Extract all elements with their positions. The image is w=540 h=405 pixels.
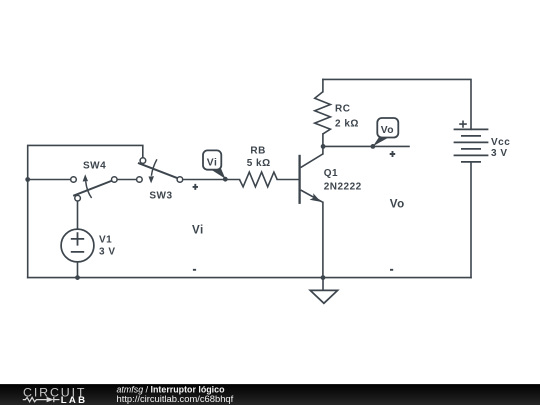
junction dot: ground node <box>321 275 326 280</box>
resistor RB 5k <box>240 172 278 187</box>
annotation - for Vo <box>390 269 393 271</box>
svg-text:3 V: 3 V <box>99 247 116 258</box>
junction dot: Vo probe <box>371 144 376 149</box>
junction dot: Vi probe <box>223 177 228 182</box>
svg-text:SW3: SW3 <box>149 191 172 202</box>
wire: ground stub <box>322 278 324 291</box>
wire: emitter down to ground rail <box>322 202 324 277</box>
svg-text:Vi: Vi <box>192 223 204 236</box>
svg-text:Q1: Q1 <box>324 168 338 179</box>
svg-text:2 kΩ: 2 kΩ <box>335 119 359 130</box>
ground <box>310 290 337 303</box>
SW3 lever <box>138 163 178 178</box>
CircuitLab squiggle resistor+diode <box>23 397 60 402</box>
wire: SW4 to SW3 segment <box>117 179 136 181</box>
wire: left loop (SW3 top to top-left rail, left rail) <box>28 145 143 277</box>
battery plate long 3 <box>454 154 489 156</box>
voltage source V1 <box>61 229 115 262</box>
wire: Vo stub <box>323 145 409 147</box>
Q1 base bar <box>298 155 300 204</box>
svg-text:http://circuitlab.com/c68bhqf: http://circuitlab.com/c68bhqf <box>117 393 234 404</box>
SW4 left terminal <box>71 177 77 183</box>
svg-text:LAB: LAB <box>61 395 85 405</box>
node flag Vo <box>373 118 398 146</box>
annotation + for Vo <box>390 151 396 157</box>
Q1 emitter diagonal <box>301 190 323 202</box>
SW3 right terminal <box>177 177 183 183</box>
wire: V1 bottom lead <box>77 262 79 278</box>
battery plate short 1 <box>461 135 481 137</box>
junction dot: collector node <box>321 144 326 149</box>
SW3 left terminal <box>137 177 143 183</box>
battery plus sign <box>459 121 467 128</box>
wire: top right rail to battery <box>323 79 471 129</box>
SW4 pivot terminal <box>75 195 81 201</box>
wire: RB to Q1 base <box>277 179 298 181</box>
footer bar <box>0 384 540 405</box>
svg-text:RC: RC <box>335 104 350 115</box>
svg-text:5 kΩ: 5 kΩ <box>247 158 271 169</box>
junction dot: V1 bottom rail <box>75 275 80 280</box>
SW3 actuation arrow <box>151 159 157 176</box>
annotation + for Vi <box>193 184 198 190</box>
svg-text:V1: V1 <box>99 235 112 246</box>
wire: RC top lead <box>322 79 324 91</box>
SW3 top terminal <box>140 158 146 164</box>
svg-text:Vo: Vo <box>381 125 394 136</box>
wire: RC bottom to collector <box>322 134 324 154</box>
annotation - for Vi <box>193 269 196 271</box>
svg-text:Vcc: Vcc <box>491 137 510 148</box>
wire: battery bottom lead down right rail <box>470 163 472 278</box>
Q1 collector diagonal <box>301 154 323 168</box>
svg-text:Vo: Vo <box>390 198 405 211</box>
svg-text:SW4: SW4 <box>83 161 106 172</box>
Q1 emitter arrowhead <box>310 193 321 202</box>
wire: V1 top lead <box>77 201 79 229</box>
battery plate short 3 <box>461 161 481 163</box>
svg-text:RB: RB <box>250 145 265 156</box>
battery plate long 1 <box>454 128 489 130</box>
wire: middle left segment <box>28 179 71 181</box>
svg-text:Vi: Vi <box>207 157 218 168</box>
battery plate long 2 <box>454 141 489 143</box>
junction dot: left rail / middle wire <box>25 177 30 182</box>
wire: SW3 to RB segment <box>183 179 240 181</box>
battery plate short 2 <box>461 148 481 150</box>
switch SW4 <box>71 161 117 201</box>
SW4 right terminal <box>112 177 118 183</box>
SW4 actuation arrow <box>86 181 92 198</box>
transistor Q1 <box>300 154 362 204</box>
wire: bottom rail <box>28 277 471 279</box>
SW4 lever <box>73 181 112 196</box>
battery Vcc <box>454 129 489 162</box>
svg-text:3 V: 3 V <box>491 148 508 159</box>
resistor RC 2k <box>315 92 331 134</box>
svg-text:2N2222: 2N2222 <box>324 182 362 193</box>
node flag Vi <box>203 150 225 178</box>
switch SW3 <box>137 158 183 202</box>
